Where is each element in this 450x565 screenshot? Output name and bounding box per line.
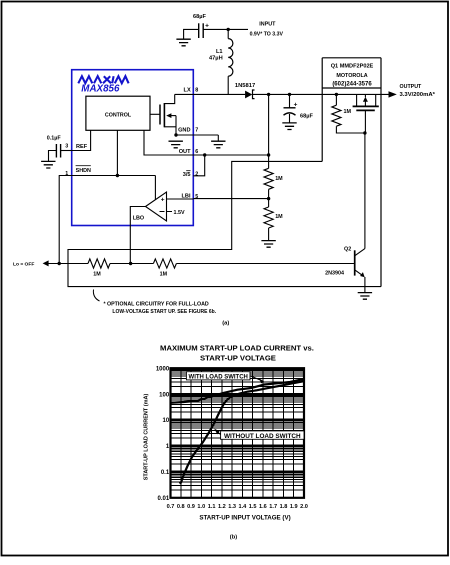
svg-text:(602)244-3576: (602)244-3576 [332, 81, 372, 87]
svg-text:WITHOUT LOAD SWITCH: WITHOUT LOAD SWITCH [224, 433, 301, 440]
svg-text:SHDN: SHDN [76, 168, 91, 174]
svg-text:LBI: LBI [181, 194, 190, 200]
svg-text:0.9: 0.9 [187, 504, 195, 510]
svg-text:0.8: 0.8 [177, 504, 185, 510]
svg-text:0.9V* TO 3.3V: 0.9V* TO 3.3V [250, 31, 284, 37]
svg-text:1.1: 1.1 [208, 504, 216, 510]
svg-text:0.01: 0.01 [158, 496, 170, 502]
svg-text:START-UP VOLTAGE: START-UP VOLTAGE [200, 353, 276, 362]
svg-text:6: 6 [195, 149, 198, 155]
svg-text:L1: L1 [216, 49, 223, 55]
svg-text:68µF: 68µF [193, 14, 206, 20]
svg-text:0.1: 0.1 [161, 470, 170, 476]
svg-text:LBO: LBO [133, 215, 144, 221]
svg-text:1.3: 1.3 [228, 504, 236, 510]
svg-text:MOTOROLA: MOTOROLA [336, 73, 367, 79]
svg-text:8: 8 [195, 88, 198, 94]
svg-text:REF: REF [76, 144, 88, 150]
svg-text:1M: 1M [275, 176, 283, 182]
svg-text:Q2: Q2 [344, 246, 351, 252]
svg-text:INPUT: INPUT [259, 22, 276, 28]
svg-text:0.7: 0.7 [167, 504, 175, 510]
svg-text:5: 5 [195, 194, 198, 200]
svg-text:1M: 1M [160, 271, 168, 277]
svg-text:3.3V/200mA*: 3.3V/200mA* [400, 92, 436, 98]
svg-text:2.0: 2.0 [300, 504, 308, 510]
svg-text:47µH: 47µH [209, 56, 223, 62]
svg-text:1M: 1M [93, 271, 101, 277]
svg-text:7: 7 [195, 128, 198, 134]
svg-text:1.0: 1.0 [197, 504, 205, 510]
svg-text:2: 2 [195, 172, 198, 178]
svg-text:LOW-VOLTAGE START UP. SEE FIGU: LOW-VOLTAGE START UP. SEE FIGURE 6b. [112, 309, 216, 315]
svg-text:1.9: 1.9 [290, 504, 298, 510]
svg-text:1.8: 1.8 [280, 504, 288, 510]
svg-text:MAX856: MAX856 [81, 84, 120, 95]
svg-text:2N3904: 2N3904 [325, 270, 344, 276]
svg-text:1.7: 1.7 [269, 504, 277, 510]
svg-text:10: 10 [163, 418, 170, 424]
svg-text:0.1µF: 0.1µF [47, 135, 62, 141]
svg-text:1.4: 1.4 [238, 504, 247, 510]
svg-text:3/5: 3/5 [183, 172, 191, 178]
svg-text:+: + [161, 197, 165, 204]
svg-text:CONTROL: CONTROL [105, 113, 132, 119]
svg-text:(b): (b) [230, 534, 237, 540]
svg-text:Lo = OFF: Lo = OFF [13, 261, 34, 267]
svg-text:START-UP INPUT VOLTAGE (V): START-UP INPUT VOLTAGE (V) [199, 514, 290, 521]
svg-text:GND: GND [178, 127, 190, 133]
svg-text:(a): (a) [222, 321, 229, 327]
svg-text:1.5V: 1.5V [174, 210, 185, 216]
svg-text:68µF: 68µF [300, 114, 313, 120]
svg-text:LX: LX [184, 88, 191, 94]
svg-text:1M: 1M [344, 109, 352, 115]
svg-text:+: + [205, 22, 209, 29]
svg-text:3: 3 [65, 144, 68, 150]
svg-text:1: 1 [166, 444, 170, 450]
svg-text:1: 1 [65, 171, 68, 177]
svg-text:1M: 1M [275, 214, 283, 220]
svg-text:1000: 1000 [156, 366, 170, 372]
svg-text:100: 100 [159, 392, 170, 398]
svg-text:MAXIMUM START-UP LOAD CURRENT: MAXIMUM START-UP LOAD CURRENT vs. [160, 343, 314, 352]
svg-text:1N5817: 1N5817 [235, 83, 255, 89]
svg-text:1.5: 1.5 [249, 504, 257, 510]
svg-text:* OPTIONAL CIRCUITRY FOR FULL-: * OPTIONAL CIRCUITRY FOR FULL-LOAD [104, 301, 209, 307]
svg-text:Q1 MMDF2P02E: Q1 MMDF2P02E [331, 64, 374, 70]
svg-text:OUTPUT: OUTPUT [400, 84, 423, 90]
svg-text:1.2: 1.2 [218, 504, 226, 510]
svg-text:1.6: 1.6 [259, 504, 267, 510]
svg-text:OUT: OUT [179, 149, 191, 155]
svg-text:WITH LOAD SWITCH: WITH LOAD SWITCH [189, 374, 248, 380]
svg-text:START-UP LOAD CURRENT (mA): START-UP LOAD CURRENT (mA) [144, 394, 150, 481]
